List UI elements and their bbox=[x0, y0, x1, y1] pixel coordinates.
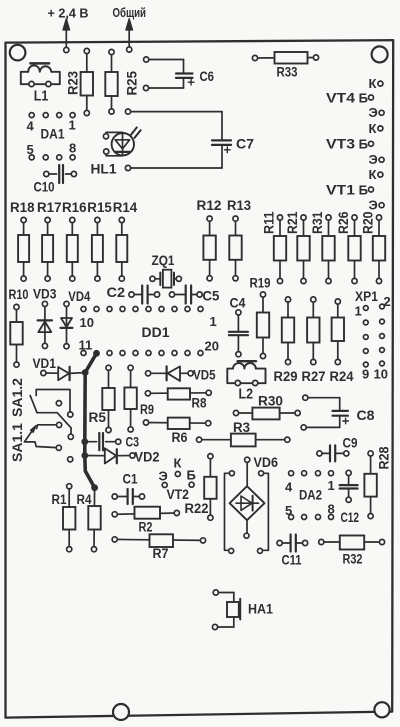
svg-text:R26: R26 bbox=[336, 211, 351, 234]
svg-text:R8: R8 bbox=[192, 396, 207, 411]
svg-text:11: 11 bbox=[79, 338, 93, 353]
svg-text:4: 4 bbox=[27, 119, 35, 134]
resistor R16 bbox=[67, 217, 78, 281]
svg-text:VT2: VT2 bbox=[167, 487, 190, 502]
svg-text:R24: R24 bbox=[330, 369, 354, 384]
svg-text:К: К bbox=[369, 167, 377, 182]
svg-text:R23: R23 bbox=[66, 71, 81, 95]
DD1 pin label 11 bbox=[79, 338, 93, 353]
label R25 bbox=[125, 71, 140, 96]
resistor R19 bbox=[257, 292, 269, 359]
svg-text:R20: R20 bbox=[361, 212, 376, 235]
label R18 bbox=[10, 200, 35, 215]
svg-text:VT1: VT1 bbox=[326, 182, 356, 197]
label ZQ1 bbox=[152, 253, 175, 268]
mounting hole bottom-right bbox=[374, 702, 389, 717]
label R20 bbox=[361, 212, 376, 235]
svg-text:Б: Б bbox=[359, 182, 368, 197]
svg-text:Б: Б bbox=[187, 468, 196, 483]
op-amp DA1 pads bbox=[29, 113, 75, 160]
label R17 bbox=[37, 200, 62, 215]
svg-text:R21: R21 bbox=[285, 211, 300, 234]
svg-text:R32: R32 bbox=[343, 552, 363, 567]
label R31 bbox=[310, 211, 325, 234]
label C10 bbox=[34, 179, 55, 195]
label C11 bbox=[282, 553, 302, 568]
svg-text:C10: C10 bbox=[34, 179, 55, 195]
label R14 bbox=[113, 200, 138, 215]
via hole bbox=[68, 457, 73, 462]
label R1 bbox=[52, 492, 67, 507]
label VT2 bbox=[167, 487, 190, 502]
label R30 bbox=[258, 394, 283, 409]
label C9 bbox=[343, 435, 358, 451]
svg-text:C9: C9 bbox=[343, 435, 358, 451]
capacitor C9 bbox=[317, 445, 349, 461]
svg-text:Б: Б bbox=[359, 137, 368, 152]
svg-text:R15: R15 bbox=[87, 200, 112, 215]
VT2 label K bbox=[174, 456, 182, 471]
DD1 pin label 10 bbox=[80, 315, 94, 330]
svg-text:R9: R9 bbox=[140, 402, 154, 417]
label R3 bbox=[233, 420, 250, 435]
label R11 bbox=[262, 211, 277, 234]
connector XP1 pads bbox=[363, 304, 384, 367]
label VD5 bbox=[193, 368, 216, 383]
svg-text:R5: R5 bbox=[89, 410, 107, 425]
svg-text:R11: R11 bbox=[262, 211, 277, 234]
svg-text:К: К bbox=[369, 121, 377, 136]
XP1 pin label 9 bbox=[362, 367, 369, 382]
svg-text:R31: R31 bbox=[310, 211, 325, 234]
resistor R4 bbox=[88, 488, 100, 552]
resistor R1 bbox=[63, 484, 75, 552]
svg-text:Общий: Общий bbox=[113, 6, 147, 20]
svg-text:1: 1 bbox=[355, 304, 362, 319]
resistor R21 bbox=[297, 215, 309, 284]
label SA1.2 bbox=[10, 378, 25, 417]
label Obshchiy (common) bbox=[113, 6, 147, 20]
capacitor C1 bbox=[112, 489, 144, 504]
svg-text:8: 8 bbox=[328, 502, 335, 517]
label R13 bbox=[227, 198, 251, 213]
svg-text:К: К bbox=[174, 456, 182, 471]
capacitor C8 bbox=[301, 395, 348, 430]
label R6 bbox=[172, 430, 188, 445]
svg-text:R14: R14 bbox=[113, 200, 138, 215]
svg-text:1: 1 bbox=[328, 478, 335, 493]
power pin +2,4V arrow bbox=[63, 19, 70, 53]
label R16 bbox=[62, 200, 87, 215]
svg-text:10: 10 bbox=[374, 367, 388, 382]
svg-text:VD4: VD4 bbox=[68, 289, 90, 304]
diode VD1 bbox=[41, 367, 85, 381]
resistor R30 bbox=[233, 408, 300, 420]
resistor R15 bbox=[92, 217, 103, 281]
label C5 bbox=[202, 288, 219, 304]
label R24 bbox=[330, 369, 354, 384]
mounting hole top-right bbox=[372, 46, 388, 62]
resistor R11 bbox=[274, 215, 286, 284]
mounting hole bottom-left bbox=[113, 704, 129, 720]
svg-text:R27: R27 bbox=[302, 369, 326, 384]
label C1 bbox=[123, 471, 138, 487]
resistor R3 bbox=[197, 434, 290, 447]
label L2 bbox=[239, 387, 254, 403]
label R5 bbox=[89, 410, 107, 425]
label DD1 bbox=[142, 325, 171, 340]
label R2 bbox=[139, 520, 153, 535]
label HA1 bbox=[248, 602, 273, 617]
power pin common arrow bbox=[126, 19, 133, 53]
DA2 pin label 5 bbox=[285, 503, 292, 518]
label VT1 bbox=[326, 182, 356, 197]
svg-text:R6: R6 bbox=[172, 430, 188, 445]
resistor R13 bbox=[229, 216, 241, 281]
label R22 bbox=[185, 501, 209, 516]
svg-text:VD1: VD1 bbox=[33, 356, 57, 371]
capacitor C5 bbox=[169, 286, 202, 304]
svg-text:DA1: DA1 bbox=[41, 127, 65, 142]
svg-text:Э: Э bbox=[369, 105, 378, 120]
svg-text:10: 10 bbox=[80, 315, 94, 330]
svg-text:C8: C8 bbox=[357, 407, 375, 423]
resistor R23 bbox=[81, 48, 93, 115]
label R27 bbox=[302, 369, 326, 384]
svg-text:VT3: VT3 bbox=[326, 137, 356, 152]
XP1 pin label 2 bbox=[384, 294, 391, 309]
diode VD5 bbox=[146, 366, 194, 381]
svg-text:R1: R1 bbox=[52, 492, 67, 507]
label DA1 bbox=[41, 127, 65, 142]
svg-text:C5: C5 bbox=[202, 288, 219, 304]
svg-text:1: 1 bbox=[69, 118, 76, 133]
label C7 bbox=[236, 136, 254, 152]
svg-text:Э: Э bbox=[159, 469, 168, 484]
svg-text:Б: Б bbox=[359, 90, 368, 105]
svg-text:9: 9 bbox=[362, 367, 369, 382]
label R9 bbox=[140, 402, 154, 417]
svg-text:5: 5 bbox=[27, 142, 34, 157]
svg-text:L1: L1 bbox=[34, 89, 49, 105]
label R21 bbox=[285, 211, 300, 234]
resistor R31 bbox=[322, 215, 334, 284]
svg-text:L2: L2 bbox=[239, 387, 254, 403]
label VD4 bbox=[68, 289, 90, 304]
XP1 pin label 10 bbox=[374, 367, 388, 382]
label VD2 bbox=[135, 450, 160, 465]
svg-text:R17: R17 bbox=[37, 200, 62, 215]
svg-text:Э: Э bbox=[369, 152, 378, 167]
DD1 pin label 20 bbox=[205, 339, 219, 354]
label C12 bbox=[341, 510, 360, 525]
label C4 bbox=[230, 295, 246, 311]
transistor VT2 pads bbox=[162, 472, 194, 488]
svg-text:R7: R7 bbox=[153, 546, 169, 561]
svg-text:C6: C6 bbox=[200, 68, 215, 84]
label R19 bbox=[250, 276, 271, 291]
label R8 bbox=[192, 396, 207, 411]
svg-text:VD5: VD5 bbox=[193, 368, 216, 383]
svg-text:R18: R18 bbox=[10, 200, 35, 215]
capacitor C2 bbox=[129, 286, 160, 304]
mounting hole top-left bbox=[10, 45, 26, 61]
svg-text:SA1.1: SA1.1 bbox=[10, 422, 25, 462]
op-amp DA2 pads bbox=[289, 471, 334, 520]
svg-text:8: 8 bbox=[69, 141, 76, 156]
svg-text:R25: R25 bbox=[125, 71, 140, 96]
capacitor C3 bbox=[85, 433, 121, 450]
DA1 pin label 5 bbox=[27, 142, 34, 157]
svg-text:R29: R29 bbox=[274, 369, 298, 384]
svg-text:+ 2,4 В: + 2,4 В bbox=[48, 6, 89, 21]
label C3 bbox=[126, 434, 140, 450]
label R4 bbox=[77, 492, 92, 507]
svg-text:VD2: VD2 bbox=[135, 450, 160, 465]
label R28 bbox=[377, 446, 392, 469]
diode bridge VD6 bbox=[225, 457, 269, 553]
svg-text:R16: R16 bbox=[62, 200, 87, 215]
label SA1.1 bbox=[10, 422, 25, 462]
svg-text:1: 1 bbox=[210, 314, 217, 329]
resistor R7 bbox=[112, 534, 205, 547]
svg-text:R33: R33 bbox=[277, 64, 298, 80]
capacitor C10 bbox=[44, 165, 77, 183]
DA1 pin label 8 bbox=[69, 141, 76, 156]
svg-text:C12: C12 bbox=[341, 510, 360, 525]
diode VD2 bbox=[85, 448, 135, 463]
label VT3 bbox=[326, 137, 356, 152]
DA2 pin label 1 bbox=[328, 478, 335, 493]
DA1 pin label 4 bbox=[27, 119, 35, 134]
label VD1 bbox=[33, 356, 57, 371]
capacitor C6 bbox=[143, 57, 194, 91]
resistor R6 bbox=[143, 418, 210, 429]
svg-text:R30: R30 bbox=[258, 394, 283, 409]
diode VD3 bbox=[38, 301, 52, 348]
IC DD1 pads bbox=[81, 307, 203, 356]
svg-text:C4: C4 bbox=[230, 295, 246, 311]
svg-text:R19: R19 bbox=[250, 276, 271, 291]
resistor R14 bbox=[116, 217, 127, 281]
resistor R5 bbox=[102, 365, 114, 432]
svg-text:К: К bbox=[369, 76, 377, 91]
resistor R12 bbox=[203, 216, 215, 281]
resistor R32 bbox=[319, 536, 385, 550]
resistor R22 bbox=[204, 454, 216, 521]
svg-text:20: 20 bbox=[205, 339, 219, 354]
label +2,4V bbox=[48, 6, 89, 21]
svg-text:R10: R10 bbox=[9, 287, 29, 302]
buzzer HA1 bbox=[212, 590, 240, 630]
resistor R29 bbox=[282, 297, 294, 365]
svg-text:XP1: XP1 bbox=[355, 289, 378, 304]
label VT4 bbox=[326, 90, 356, 105]
DA1 pin label 1 bbox=[69, 118, 76, 133]
svg-text:DA2: DA2 bbox=[299, 488, 322, 503]
label C6 bbox=[200, 68, 215, 84]
quartz ZQ1 bbox=[150, 270, 182, 288]
label R15 bbox=[87, 200, 112, 215]
label R32 bbox=[343, 552, 363, 567]
label C8 bbox=[357, 407, 375, 423]
svg-text:2: 2 bbox=[384, 294, 391, 309]
resistor R27 bbox=[307, 297, 319, 365]
resistor R18 bbox=[18, 217, 29, 281]
svg-text:C3: C3 bbox=[126, 434, 140, 450]
resistor R20 bbox=[373, 215, 385, 284]
resistor R2 bbox=[112, 507, 179, 519]
resistor R33 bbox=[252, 52, 318, 64]
svg-text:Э: Э bbox=[369, 198, 378, 213]
svg-text:C7: C7 bbox=[236, 136, 254, 152]
transistor VT4/VT3/VT1 emitter-base-collector pads bbox=[359, 76, 385, 213]
DD1 pin label 1 bbox=[210, 314, 217, 329]
label HL1 bbox=[91, 161, 117, 177]
svg-text:5: 5 bbox=[285, 503, 292, 518]
svg-text:R2: R2 bbox=[139, 520, 153, 535]
capacitor C11 bbox=[277, 535, 308, 552]
resistor R24 bbox=[332, 299, 344, 365]
label R33 bbox=[277, 64, 298, 80]
resistor R28 bbox=[364, 451, 376, 519]
svg-text:R12: R12 bbox=[197, 198, 222, 213]
svg-text:HL1: HL1 bbox=[91, 161, 117, 177]
LED HL1 bbox=[103, 127, 140, 155]
XP1 pin label 1 bbox=[355, 304, 362, 319]
thick wire trace bbox=[81, 350, 100, 491]
DA2 pin label 8 bbox=[328, 502, 335, 517]
svg-text:R28: R28 bbox=[377, 446, 392, 469]
label R23 bbox=[66, 71, 81, 95]
label XP1 bbox=[355, 289, 378, 304]
label VD6 bbox=[254, 455, 279, 470]
svg-text:C2: C2 bbox=[107, 284, 126, 300]
capacitor C7 loop bbox=[125, 109, 231, 171]
svg-text:DD1: DD1 bbox=[142, 325, 171, 340]
svg-text:4: 4 bbox=[285, 480, 293, 495]
label L1 bbox=[34, 89, 49, 105]
svg-text:ZQ1: ZQ1 bbox=[152, 253, 175, 268]
switch section SA1.1 bbox=[24, 422, 61, 450]
resistor R25 bbox=[105, 49, 117, 114]
switch section SA1.2 bbox=[30, 390, 73, 440]
diode VD4 bbox=[61, 301, 73, 349]
resistor R9 bbox=[124, 365, 136, 432]
svg-text:R13: R13 bbox=[227, 198, 251, 213]
label DA2 bbox=[299, 488, 322, 503]
label VD3 bbox=[33, 287, 57, 302]
resistor R17 bbox=[42, 217, 53, 281]
svg-text:VT4: VT4 bbox=[326, 90, 356, 105]
svg-text:C1: C1 bbox=[123, 471, 138, 487]
label R29 bbox=[274, 369, 298, 384]
svg-text:VD3: VD3 bbox=[33, 287, 57, 302]
svg-text:HA1: HA1 bbox=[248, 602, 273, 617]
capacitor C12 bbox=[340, 470, 358, 502]
VT2 label B bbox=[187, 468, 196, 483]
inductor L1 bbox=[21, 63, 60, 86]
capacitor C4 bbox=[229, 310, 248, 357]
label R12 bbox=[197, 198, 222, 213]
label R26 bbox=[336, 211, 351, 234]
inductor L2 bbox=[227, 361, 265, 385]
VT2 label E bbox=[159, 469, 168, 484]
label R7 bbox=[153, 546, 169, 561]
svg-text:SA1.2: SA1.2 bbox=[10, 378, 25, 417]
svg-text:VD6: VD6 bbox=[254, 455, 279, 470]
resistor R26 bbox=[348, 215, 360, 284]
svg-text:R22: R22 bbox=[185, 501, 209, 516]
resistor R10 bbox=[10, 304, 22, 367]
svg-text:R3: R3 bbox=[233, 420, 250, 435]
label R10 bbox=[9, 287, 29, 302]
svg-text:C11: C11 bbox=[282, 553, 302, 568]
resistor R8 bbox=[145, 388, 211, 399]
svg-text:R4: R4 bbox=[77, 492, 92, 507]
DA2 pin label 4 bbox=[285, 480, 293, 495]
label C2 bbox=[107, 284, 126, 300]
